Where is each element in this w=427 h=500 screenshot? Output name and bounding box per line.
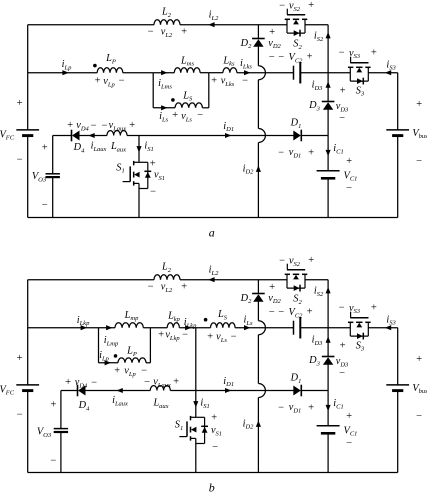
svg-text:+: + [180, 26, 187, 37]
current arrow iLkp [185, 325, 191, 330]
svg-text:iLs: iLs [159, 111, 168, 123]
svg-text:D2: D2 [240, 38, 252, 50]
battery VFC [16, 129, 39, 131]
svg-text:iS3: iS3 [386, 60, 396, 72]
svg-text:vLs: vLs [181, 111, 192, 123]
wire left rail lower [27, 391, 29, 472]
inductor Lkp [167, 323, 179, 328]
diode D2 [252, 293, 265, 295]
svg-text:+: + [345, 156, 352, 167]
wire S1 node to crossover [139, 135, 294, 137]
inductor Laux [107, 131, 127, 136]
mosfet S3 [348, 321, 353, 323]
svg-text:−: − [338, 48, 345, 59]
inductor LP [97, 68, 123, 73]
svg-text:S3: S3 [356, 341, 365, 353]
wire VO3 branch lower [60, 432, 62, 473]
svg-text:D1: D1 [290, 118, 302, 130]
svg-text:−: − [90, 377, 97, 388]
svg-text:Lmp: Lmp [124, 310, 139, 322]
wire node to D3 [327, 328, 329, 357]
wire node to D3 [327, 73, 329, 102]
wire Laux to S1 node [170, 390, 196, 392]
mosfet S2 [285, 18, 290, 20]
diode D3 [322, 356, 335, 358]
svg-text:S1: S1 [116, 163, 124, 175]
wire between crossovers [257, 335, 259, 384]
svg-text:vD3: vD3 [336, 356, 349, 368]
svg-text:−: − [149, 186, 156, 197]
wire VO3 branch upper [52, 136, 54, 174]
inductor Lms [174, 68, 200, 73]
svg-text:−: − [118, 75, 125, 86]
inductor Lmp [115, 323, 143, 328]
svg-text:−: − [415, 411, 422, 422]
svg-text:vD2: vD2 [268, 38, 281, 50]
wire VO3 branch lower [52, 177, 54, 217]
svg-text:Lms: Lms [180, 56, 194, 68]
wire S1 drain [138, 136, 140, 163]
wire node to S3 [328, 72, 350, 74]
mosfet S1 [191, 416, 205, 418]
wire primary from left rail [28, 327, 115, 329]
wire top rail left segment [28, 279, 154, 281]
svg-text:vD3: vD3 [336, 101, 349, 113]
svg-text:L2: L2 [161, 7, 172, 19]
wire from S2 to top right corner [305, 24, 328, 26]
svg-text:VC2: VC2 [289, 52, 304, 64]
svg-text:LP: LP [105, 53, 116, 65]
wire top rail left segment [28, 24, 154, 26]
svg-text:iS2: iS2 [314, 31, 324, 43]
svg-text:Vbus: Vbus [412, 128, 427, 140]
current arrow iD2 [256, 421, 261, 427]
svg-text:iL2: iL2 [209, 265, 219, 277]
svg-text:iS2: iS2 [314, 286, 324, 298]
svg-text:vLkp: vLkp [165, 330, 180, 342]
svg-text:−: − [196, 110, 203, 121]
svg-text:VO3: VO3 [32, 171, 47, 183]
svg-text:Laux: Laux [110, 141, 126, 153]
svg-text:D4: D4 [78, 400, 90, 412]
wire Lmp to join node [143, 327, 167, 329]
svg-text:−: − [181, 329, 188, 340]
svg-text:vLs: vLs [216, 332, 227, 344]
wire Lkp to S1 node [179, 327, 210, 329]
battery Vbus [386, 384, 409, 386]
svg-text:+: + [307, 402, 314, 413]
wire D4 to Laux [80, 135, 108, 137]
inductor Lks [223, 68, 237, 73]
svg-text:VC1: VC1 [344, 426, 358, 438]
svg-text:−: − [338, 368, 345, 379]
svg-text:+: + [16, 353, 23, 364]
svg-text:+: + [307, 255, 314, 266]
capacitor VO3 [54, 428, 68, 430]
wire C1 to bottom rail [327, 179, 329, 218]
svg-text:vS2: vS2 [289, 256, 301, 268]
svg-text:iS3: iS3 [386, 315, 396, 327]
current arrow iLaux [88, 133, 94, 138]
svg-text:+: + [50, 399, 57, 410]
svg-text:−: − [211, 442, 218, 453]
svg-text:iD1: iD1 [223, 376, 234, 388]
wire LS to capacitor C2 [235, 327, 293, 329]
svg-text:+: + [16, 98, 23, 109]
inductor Laux [150, 386, 170, 391]
svg-text:+: + [370, 303, 377, 314]
battery VFC [16, 384, 39, 386]
svg-text:iLs: iLs [243, 315, 252, 327]
svg-text:−: − [415, 156, 422, 167]
svg-text:iD1: iD1 [223, 121, 234, 133]
svg-text:−: − [278, 255, 285, 266]
wire Lms to join node [153, 72, 174, 74]
svg-text:+: + [306, 307, 313, 318]
current arrow iLs [161, 105, 167, 110]
current arrow iC1 [326, 405, 331, 411]
svg-text:+: + [415, 99, 422, 110]
wire right rail lower [397, 391, 399, 472]
polarity dot Ls [204, 318, 208, 322]
svg-text:−: − [345, 183, 352, 194]
svg-text:+: + [268, 282, 275, 293]
svg-text:LS: LS [182, 90, 193, 102]
svg-text:LP: LP [126, 346, 137, 358]
current arrow iD1 [225, 133, 231, 138]
current arrow iS3 [385, 325, 391, 330]
capacitor C2 [293, 321, 295, 335]
svg-text:−: − [278, 0, 285, 11]
current arrow iLaux [116, 388, 122, 393]
current arrow iLkp input [81, 325, 87, 330]
svg-text:+: + [66, 120, 73, 131]
wire top rail right segment [180, 279, 287, 281]
svg-text:VFC: VFC [0, 384, 15, 396]
current arrow iD2 [256, 166, 261, 172]
wire D2 to first crossover [257, 301, 259, 320]
inductor L2 [154, 275, 180, 280]
wire S3 to right rail [368, 72, 398, 74]
svg-text:VO3: VO3 [37, 427, 52, 439]
current arrow iS1 [193, 401, 198, 407]
wire S1 node to crossover [196, 390, 294, 392]
svg-text:−: − [143, 377, 150, 388]
svg-text:iLp: iLp [62, 59, 72, 71]
wire crossover to bottom rail [257, 143, 259, 218]
svg-text:S3: S3 [356, 86, 365, 98]
wire node to S3 [328, 327, 350, 329]
svg-text:+: + [306, 52, 313, 63]
svg-text:+: + [157, 329, 164, 340]
svg-text:iD3: iD3 [312, 335, 324, 347]
wire join node vertical [208, 73, 210, 108]
wire S3 to right rail [368, 327, 398, 329]
crossover hop over transformer wire [258, 321, 265, 335]
svg-text:−: − [268, 307, 275, 318]
svg-text:vL2: vL2 [161, 27, 173, 39]
svg-text:S1: S1 [175, 420, 183, 432]
svg-text:iS1: iS1 [200, 398, 209, 410]
svg-text:−: − [277, 402, 284, 413]
svg-text:+: + [307, 147, 314, 158]
svg-text:LS: LS [217, 309, 228, 321]
crossover hop over diode wire [258, 129, 265, 143]
svg-text:−: − [16, 154, 23, 165]
svg-text:iLms: iLms [158, 78, 172, 90]
svg-text:S2: S2 [293, 294, 302, 306]
svg-text:+: + [268, 27, 275, 38]
wire node to C1 [327, 136, 329, 171]
svg-text:vD1: vD1 [289, 147, 302, 159]
wire primary from left rail [28, 72, 98, 74]
wire C1 to bottom rail [327, 434, 329, 473]
svg-text:vS3: vS3 [349, 303, 361, 315]
current arrow iD3 [326, 336, 331, 342]
wire left rail upper [27, 25, 29, 130]
current arrow iD1 [225, 388, 231, 393]
wire split node vertical [152, 73, 154, 108]
svg-text:iL2: iL2 [209, 10, 219, 22]
svg-text:vS3: vS3 [349, 48, 361, 60]
inductor LS [211, 323, 236, 328]
diode D4 [77, 385, 79, 397]
inductor LS [175, 103, 202, 108]
current arrow iLp [105, 360, 111, 365]
wire top rail right segment [180, 24, 287, 26]
wire from S2 to top right corner [305, 279, 328, 281]
svg-text:iD2: iD2 [243, 164, 255, 176]
wire Lks to capacitor C2 [237, 72, 294, 74]
svg-text:vD4: vD4 [75, 377, 88, 389]
current arrow iC1 [326, 150, 331, 156]
svg-text:−: − [268, 52, 275, 63]
current arrow iS2 [326, 32, 331, 38]
wire right rail upper [397, 328, 399, 385]
wire join to Lks [209, 72, 223, 74]
wire right rail lower [397, 136, 399, 217]
svg-text:−: − [278, 307, 285, 318]
svg-text:−: − [147, 281, 154, 292]
capacitor VC1 [317, 425, 340, 427]
svg-text:D3: D3 [308, 355, 320, 367]
svg-text:−: − [50, 455, 57, 466]
svg-text:iLks: iLks [240, 58, 252, 70]
polarity dot primary [114, 354, 118, 358]
current arrow iLp [62, 70, 68, 75]
crossover hop over diode wire [258, 384, 265, 398]
svg-text:−: − [147, 26, 154, 37]
wire left rail lower [27, 136, 29, 217]
svg-text:+: + [307, 0, 314, 11]
svg-text:−: − [278, 52, 285, 63]
svg-text:−: − [338, 303, 345, 314]
svg-text:D1: D1 [290, 373, 302, 385]
svg-text:L2: L2 [161, 262, 172, 274]
svg-text:+: + [172, 376, 179, 387]
polarity dot primary [93, 64, 97, 68]
wire D4 to Laux [86, 390, 151, 392]
polarity dot Ls [171, 98, 175, 102]
wire S1 source to bottom rail [138, 183, 140, 217]
svg-text:−: − [241, 75, 248, 86]
wire S1 source to bottom rail [195, 438, 197, 472]
wire top right corner down [327, 280, 329, 328]
svg-text:iS1: iS1 [144, 141, 153, 153]
diode D4 [71, 130, 73, 142]
wire D2 branch from top rail [257, 25, 259, 39]
svg-text:iC1: iC1 [333, 143, 343, 155]
svg-text:vLaux: vLaux [109, 120, 127, 132]
svg-text:−: − [230, 331, 237, 342]
svg-text:+: + [171, 110, 178, 121]
svg-text:+: + [41, 143, 48, 154]
svg-text:iLaux: iLaux [91, 141, 107, 153]
wire D3 to diode wire [327, 109, 329, 135]
svg-text:vLks: vLks [221, 76, 235, 88]
svg-text:vD1: vD1 [289, 402, 302, 414]
crossover hop over transformer wire [258, 66, 265, 80]
wire lower branch left [153, 107, 175, 109]
svg-text:vS1: vS1 [211, 425, 222, 437]
diode D1 [300, 385, 302, 397]
wire lower branch left [99, 362, 119, 364]
wire lower branch right [202, 107, 208, 109]
svg-text:Lkp: Lkp [167, 311, 181, 323]
svg-text:D4: D4 [73, 142, 85, 154]
mosfet S3 [348, 66, 353, 68]
diode D1 [300, 130, 302, 142]
svg-text:iC1: iC1 [333, 398, 343, 410]
svg-text:vS1: vS1 [154, 170, 165, 182]
current arrow iLs [244, 325, 250, 330]
svg-text:vLp: vLp [124, 366, 136, 378]
svg-text:D3: D3 [308, 100, 320, 112]
capacitor C2 [293, 66, 295, 80]
svg-text:+: + [339, 85, 346, 96]
wire top right corner down [327, 25, 329, 73]
wire D2 to first crossover [257, 46, 259, 65]
svg-text:D2: D2 [240, 293, 252, 305]
svg-text:VC1: VC1 [344, 171, 358, 183]
inductor LP [118, 358, 146, 363]
wire VO3 node to D4 [61, 390, 78, 392]
svg-text:+: + [345, 411, 352, 422]
wire between crossovers [257, 80, 259, 129]
svg-text:−: − [277, 147, 284, 158]
svg-text:+: + [94, 75, 101, 86]
wire crossover to bottom rail [257, 398, 259, 473]
svg-text:vD4: vD4 [76, 120, 89, 132]
svg-text:−: − [16, 409, 23, 420]
inductor L2 [154, 20, 180, 25]
wire VO3 node to D4 [53, 135, 72, 137]
svg-text:−: − [345, 438, 352, 449]
wire right rail upper [397, 73, 399, 130]
wire Laux to S1 node [127, 135, 139, 137]
wire bottom rail [28, 217, 398, 219]
svg-text:+: + [64, 377, 71, 388]
current arrow iL2 [208, 22, 214, 27]
svg-text:S2: S2 [293, 39, 302, 51]
wire join node vertical [149, 328, 151, 363]
battery Vbus [386, 129, 409, 131]
wire D1 to node [301, 390, 328, 392]
wire C2 to node [300, 72, 328, 74]
wire D3 to diode wire [327, 364, 329, 390]
svg-text:+: + [210, 412, 217, 423]
svg-text:iD3: iD3 [312, 80, 324, 92]
mosfet S2 [285, 273, 290, 275]
svg-text:b: b [209, 481, 215, 495]
svg-text:+: + [149, 158, 156, 169]
svg-text:+: + [339, 340, 346, 351]
svg-text:vD2: vD2 [268, 293, 281, 305]
wire VO3 branch upper [60, 391, 62, 429]
current arrow iLms [161, 70, 167, 75]
svg-text:iLmp: iLmp [104, 335, 119, 347]
svg-text:−: − [338, 113, 345, 124]
wire D1 to node [301, 135, 328, 137]
wire D2 branch from top rail [257, 280, 259, 294]
svg-text:VFC: VFC [0, 129, 15, 141]
svg-text:vS2: vS2 [289, 1, 301, 13]
svg-text:Lks: Lks [222, 56, 235, 68]
svg-text:iD2: iD2 [243, 419, 255, 431]
wire split node vertical [98, 328, 100, 363]
svg-text:−: − [90, 120, 97, 131]
svg-text:−: − [101, 120, 108, 131]
current arrow iL2 [208, 277, 214, 282]
svg-text:VC2: VC2 [289, 307, 304, 319]
svg-text:iLkp: iLkp [77, 315, 90, 327]
svg-text:+: + [415, 354, 422, 365]
svg-text:+: + [180, 281, 187, 292]
diode D3 [322, 101, 335, 103]
svg-text:iLaux: iLaux [112, 395, 128, 407]
svg-text:Vbus: Vbus [412, 383, 427, 395]
wire node to C1 [327, 391, 329, 426]
svg-text:+: + [210, 75, 217, 86]
wire left rail upper [27, 280, 29, 385]
svg-text:−: − [41, 200, 48, 211]
wire bottom rail [28, 472, 398, 474]
svg-text:+: + [113, 365, 120, 376]
wire S1 drain [195, 328, 197, 418]
wire C2 to node [300, 327, 328, 329]
svg-text:vL2: vL2 [161, 282, 173, 294]
current arrow iS3 [385, 70, 391, 75]
svg-text:iLp: iLp [99, 350, 109, 362]
svg-text:vLp: vLp [103, 76, 115, 88]
current arrow iLmp [106, 325, 112, 330]
svg-text:+: + [128, 120, 135, 131]
svg-text:Laux: Laux [152, 398, 168, 410]
svg-text:vLaux: vLaux [153, 377, 171, 389]
svg-text:a: a [209, 226, 215, 240]
mosfet S1 [134, 161, 148, 163]
current arrow iLks [244, 70, 250, 75]
wire lower branch right [146, 362, 150, 364]
svg-text:+: + [206, 331, 213, 342]
svg-text:−: − [140, 365, 147, 376]
current arrow iD3 [326, 81, 331, 87]
svg-text:+: + [370, 48, 377, 59]
current arrow iS2 [326, 287, 331, 293]
wire LP to split node [123, 72, 153, 74]
current arrow iS1 [136, 146, 141, 152]
capacitor VC1 [317, 170, 340, 172]
